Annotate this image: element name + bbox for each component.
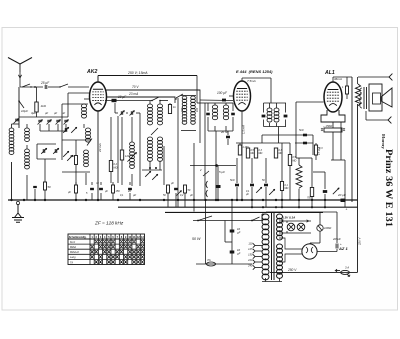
svg-text:150: 150 [116,190,121,193]
switch S2 [60,84,68,87]
cathode resistor 150 [324,128,342,132]
wire primary bottom [265,278,267,282]
capacitor 20nF [226,136,230,139]
wire antenna column down [18,87,20,128]
wire AK2 grid left [68,92,90,94]
svg-text:1kΩ: 1kΩ [41,104,47,108]
IFT1 coil secondary [223,105,228,109]
IFT1 cap right [231,113,235,116]
svg-text:70 V: 70 V [132,85,139,89]
chassis bus main [8,199,358,201]
wire right column down [340,122,342,160]
chassis bus 3 [165,211,323,213]
osc coil L8 [148,137,153,141]
svg-text:36mA: 36mA [334,77,342,81]
switch bandfilter [87,139,92,146]
svg-text:100 µF: 100 µF [217,91,228,95]
trimmer variable cap bank [41,148,47,154]
wire psu left vertical [231,200,233,264]
thermal fuse 100 Ohm [317,225,323,231]
switch antenna shunt [19,101,24,108]
capacitor 25pF [44,85,46,89]
wire AL1 grid lead [312,135,314,155]
transformer primary winding [262,214,269,220]
speaker [369,84,382,111]
IFT1 top bar [181,95,196,97]
svg-text:10µF: 10µF [21,109,28,113]
resistor 0,5M [246,148,249,158]
trimmer bandfilter 2 [71,127,77,133]
svg-text:100: 100 [196,107,199,112]
AVC line [190,165,236,167]
resistor 1k AL1 [346,86,349,94]
capacitor to bus [33,186,37,188]
resistor 150 [75,156,78,165]
wire vertical osc feed [177,98,179,207]
svg-text:TA: TA [70,261,73,264]
oscillator coil L5 [84,150,89,154]
junction dots on buses [10,199,12,201]
wire field coil down [357,104,359,272]
terminal chevron bottom [388,117,391,124]
svg-text:µF: µF [237,252,241,256]
mains line with fuse [196,263,252,265]
trimmer C row 3 [56,120,61,125]
tube E446 [234,81,251,111]
wire L2 to ground bus [26,175,28,200]
svg-text:100: 100 [181,107,184,112]
bottom psu bus 250V [270,271,358,273]
switch table [68,234,145,265]
IFT1 coil A [182,96,187,100]
fuse mains [341,270,350,274]
dial lamp 2 [297,223,305,231]
trimmer osc low 2 [152,174,158,180]
capacitor 10uF grid [105,100,152,102]
resistor osc 50k [168,105,171,114]
switch osc mid [151,128,158,135]
switch osc 2 [176,94,183,98]
wire bandfilter top [67,104,69,117]
trimmer osc 1 [63,151,69,157]
transformer secondary HT winding [277,244,283,249]
wire anode to IFT1 [197,102,208,104]
wire AF coupling [261,135,263,143]
trimmer C row 1 [38,120,43,125]
wire primary top [232,220,262,222]
switch osc [152,97,159,101]
wire anode drop to IFT2 [270,78,272,103]
AL1 socket pedestal [321,110,345,122]
osc coil L9 [158,137,163,141]
svg-text:110: 110 [248,242,253,246]
svg-text:20 µF: 20 µF [337,193,346,197]
IFT1 cap left [206,113,210,116]
dial lamp bracket bottom [279,232,311,234]
tube AL1 [324,82,342,112]
svg-text:Mittel+K: Mittel+K [70,251,79,254]
wire rail drop x197 [196,76,198,104]
wire speaker link [351,77,353,202]
IFT3 bottom wire [264,126,287,128]
wire detector row [236,142,290,144]
chassis bus 2 [118,206,358,208]
bandfilter coil L4 [86,128,91,132]
trimmer AF [333,188,339,194]
bottom row components [75,185,78,193]
IFT1 coil primary [212,105,217,109]
svg-text:AK2: AK2 [86,69,97,75]
transformer secondary heater winding [277,214,283,219]
svg-text:100Ω: 100Ω [324,226,332,230]
resistor 0,5M right [288,155,291,166]
capacitor 1nF coupling [303,142,307,145]
trimmer C row 4 [64,120,69,125]
svg-text:240: 240 [247,264,253,268]
trimmer antenna cap [15,118,19,120]
wire speaker bottom terminal [365,111,367,120]
wire vertical avc [193,143,195,212]
wire rail 23mA drop [174,97,176,104]
IFT3 cap left [262,115,266,118]
svg-text:3 A: 3 A [345,266,349,270]
IFT1 bottom wire [208,130,233,132]
antenna [8,58,20,65]
wire psu stub elbow [224,221,226,243]
IFT1 coil B [191,96,196,100]
svg-text:5nF: 5nF [299,128,304,132]
transformer core [271,212,273,280]
svg-text:Kurz: Kurz [70,241,76,244]
svg-text:25 µF: 25 µF [40,81,50,85]
svg-text:µF: µF [54,111,57,115]
svg-text:10 µF: 10 µF [118,95,127,99]
wire speaker top terminal [358,76,389,78]
mains switch [198,216,212,221]
trimmer detector [256,187,262,193]
resistor grid leak [314,145,317,155]
wire E446 anode [241,78,243,81]
wire rectifier left loop [279,238,302,249]
trimmer osc 2 [67,155,73,161]
mains switch line [164,211,166,213]
svg-text:µF: µF [45,111,48,115]
capacitor 20uF psu [335,244,337,249]
capacitor 20uF output [341,199,346,202]
svg-text:Prinz 36 W E 131: Prinz 36 W E 131 [383,149,394,227]
capacitor 10uF psu 1 [230,230,235,233]
bandfilter coil L3 [82,104,87,108]
svg-text:Mittel: Mittel [70,246,76,249]
ground symbol main [16,201,19,204]
svg-text:125: 125 [248,247,253,251]
trimmer osc low [145,171,151,177]
svg-text:250 V; 15mA: 250 V; 15mA [127,71,148,75]
svg-text:Horny: Horny [381,134,386,150]
svg-text:Schalterstellg.: Schalterstellg. [69,235,87,239]
wire mains chassis vertical [205,200,207,264]
svg-text:20: 20 [127,189,131,193]
mains down arrow [347,274,350,277]
capacitor 5uF [217,166,219,201]
IFT3 top wire [264,102,287,104]
svg-text:6,3V 0,3A: 6,3V 0,3A [282,216,295,220]
svg-text:ZF = 128 kHz: ZF = 128 kHz [94,221,124,226]
svg-text:50 W: 50 W [192,237,201,241]
phono connector pair [206,181,208,197]
wire trimmer down [117,116,119,183]
svg-text:1 MΩ: 1 MΩ [243,146,249,149]
svg-text:Lang: Lang [70,256,76,259]
svg-text:220 V: 220 V [358,237,362,246]
svg-text:MΩ: MΩ [114,167,118,170]
svg-text:20 nF: 20 nF [220,130,228,134]
wire antenna down-lead [19,72,21,87]
resistor 120k [120,150,123,160]
wire psu top line [266,211,337,213]
capacitor 100uF grid [197,99,233,101]
svg-text:23 mA: 23 mA [98,143,102,153]
zigzag resistor AF [296,165,302,188]
svg-text:700: 700 [307,197,312,200]
wire osc bottom [62,171,90,173]
capacitor 5nF [235,184,239,187]
svg-text:220: 220 [247,258,253,262]
svg-text:5 µF: 5 µF [219,170,225,174]
terminal chevron top [389,74,392,81]
input coil L2a [25,128,30,132]
mains plug arrow [336,269,341,272]
dial lamp 1 [287,223,295,231]
trimmer pair under 10uF [120,111,125,116]
wire antenna to input switch [20,86,43,88]
svg-text:17 mA: 17 mA [317,147,321,155]
switch table X marks [91,240,144,264]
svg-text:AL1: AL1 [324,70,335,76]
wire IFT3 down [278,127,280,144]
dial lamp bracket top [279,220,311,222]
svg-text:~ 150Ω: ~ 150Ω [323,124,333,128]
IFT3 coil secondary [274,108,279,112]
wire IFT1 down [215,131,217,200]
resistor det right [280,182,283,191]
svg-text:7,5mA: 7,5mA [247,79,256,83]
wire rectifier output [317,251,337,253]
svg-text:120: 120 [125,154,130,158]
svg-text:250 V: 250 V [287,268,297,272]
svg-text:AZ 1: AZ 1 [338,246,348,251]
wire AK2 cathode down [97,111,99,200]
rail 70V [106,89,200,91]
svg-text:E 444 (RENS 1254): E 444 (RENS 1254) [236,69,273,74]
wire right column down 2 [344,160,346,207]
wire E446 cathode [241,112,243,201]
svg-text:23 mA: 23 mA [128,92,138,96]
resistor 1M mixer [109,161,112,172]
wires long verticals [228,96,230,143]
IFT1 bottom bar [181,130,196,132]
svg-text:µF: µF [237,231,241,235]
antenna coil L1 [9,128,14,132]
svg-text:11: 11 [133,235,136,239]
resistor 0,3M [254,148,257,158]
svg-text:3µF: 3µF [31,111,36,115]
trimmer detector 2 [269,189,275,195]
IFT3 cap right [284,115,288,118]
svg-text:µF: µF [62,111,65,115]
capacitor 0,1uF [250,184,254,187]
wire osc junctions [149,161,151,170]
osc coil L7 [158,104,163,108]
transformer taps [253,243,255,247]
input coil L2b [25,149,30,153]
svg-text:MΩ: MΩ [259,152,263,155]
wire AL1 anode [332,77,334,82]
svg-text:7A: 7A [207,258,211,262]
svg-text:20 µF: 20 µF [332,237,341,241]
svg-text:10: 10 [128,235,131,239]
svg-text:1,5 mA: 1,5 mA [242,125,246,134]
rail 250V 15mA [98,75,197,77]
tube AK2 [90,82,107,111]
svg-text:+: + [346,208,348,212]
spark gap arrester [18,75,21,78]
svg-text:12: 12 [137,235,140,239]
field coil resistor [355,84,360,106]
capacitor det 2 [264,184,268,187]
wire cathode down [332,122,334,128]
IFT3 coil primary [267,108,272,112]
wire trimmer row [19,116,68,118]
svg-text:13: 13 [141,235,144,239]
svg-text:5nF: 5nF [230,178,235,182]
resistor 700 AF [310,188,313,197]
wire E446 grid [229,95,233,97]
capacitor 5nF coupling [303,134,307,137]
wire AK2 anode to 250V rail [97,76,99,83]
rail 23mA [106,96,175,98]
trimmer bandfilter 1 [63,127,69,133]
rectifier tube AZ1 [302,244,317,259]
wire rail 70V drop x199.5 [199,90,201,101]
svg-text:MΩ: MΩ [293,160,297,163]
bottom row components right [167,185,170,193]
svg-text:MΩ: MΩ [285,187,289,190]
output transformer core [363,87,365,109]
switch S1 [22,84,30,87]
fuse 7A [206,262,215,266]
capacitor 10uF psu 2 [230,251,235,254]
resistor 1k [35,102,38,112]
resistor 50 [44,182,47,190]
svg-text:50: 50 [48,185,52,189]
svg-text:150: 150 [248,253,253,257]
mains switch pole 2 [252,217,260,221]
svg-text:µF: µF [133,193,136,197]
capacitor AF [323,190,327,193]
resistor 2M [238,145,241,155]
osc coil L6 [148,104,153,108]
resistor 1M [274,148,277,158]
wire AL1 grid [313,99,324,101]
variable osc coil [130,142,135,146]
trimmer C row 2 [47,120,52,125]
